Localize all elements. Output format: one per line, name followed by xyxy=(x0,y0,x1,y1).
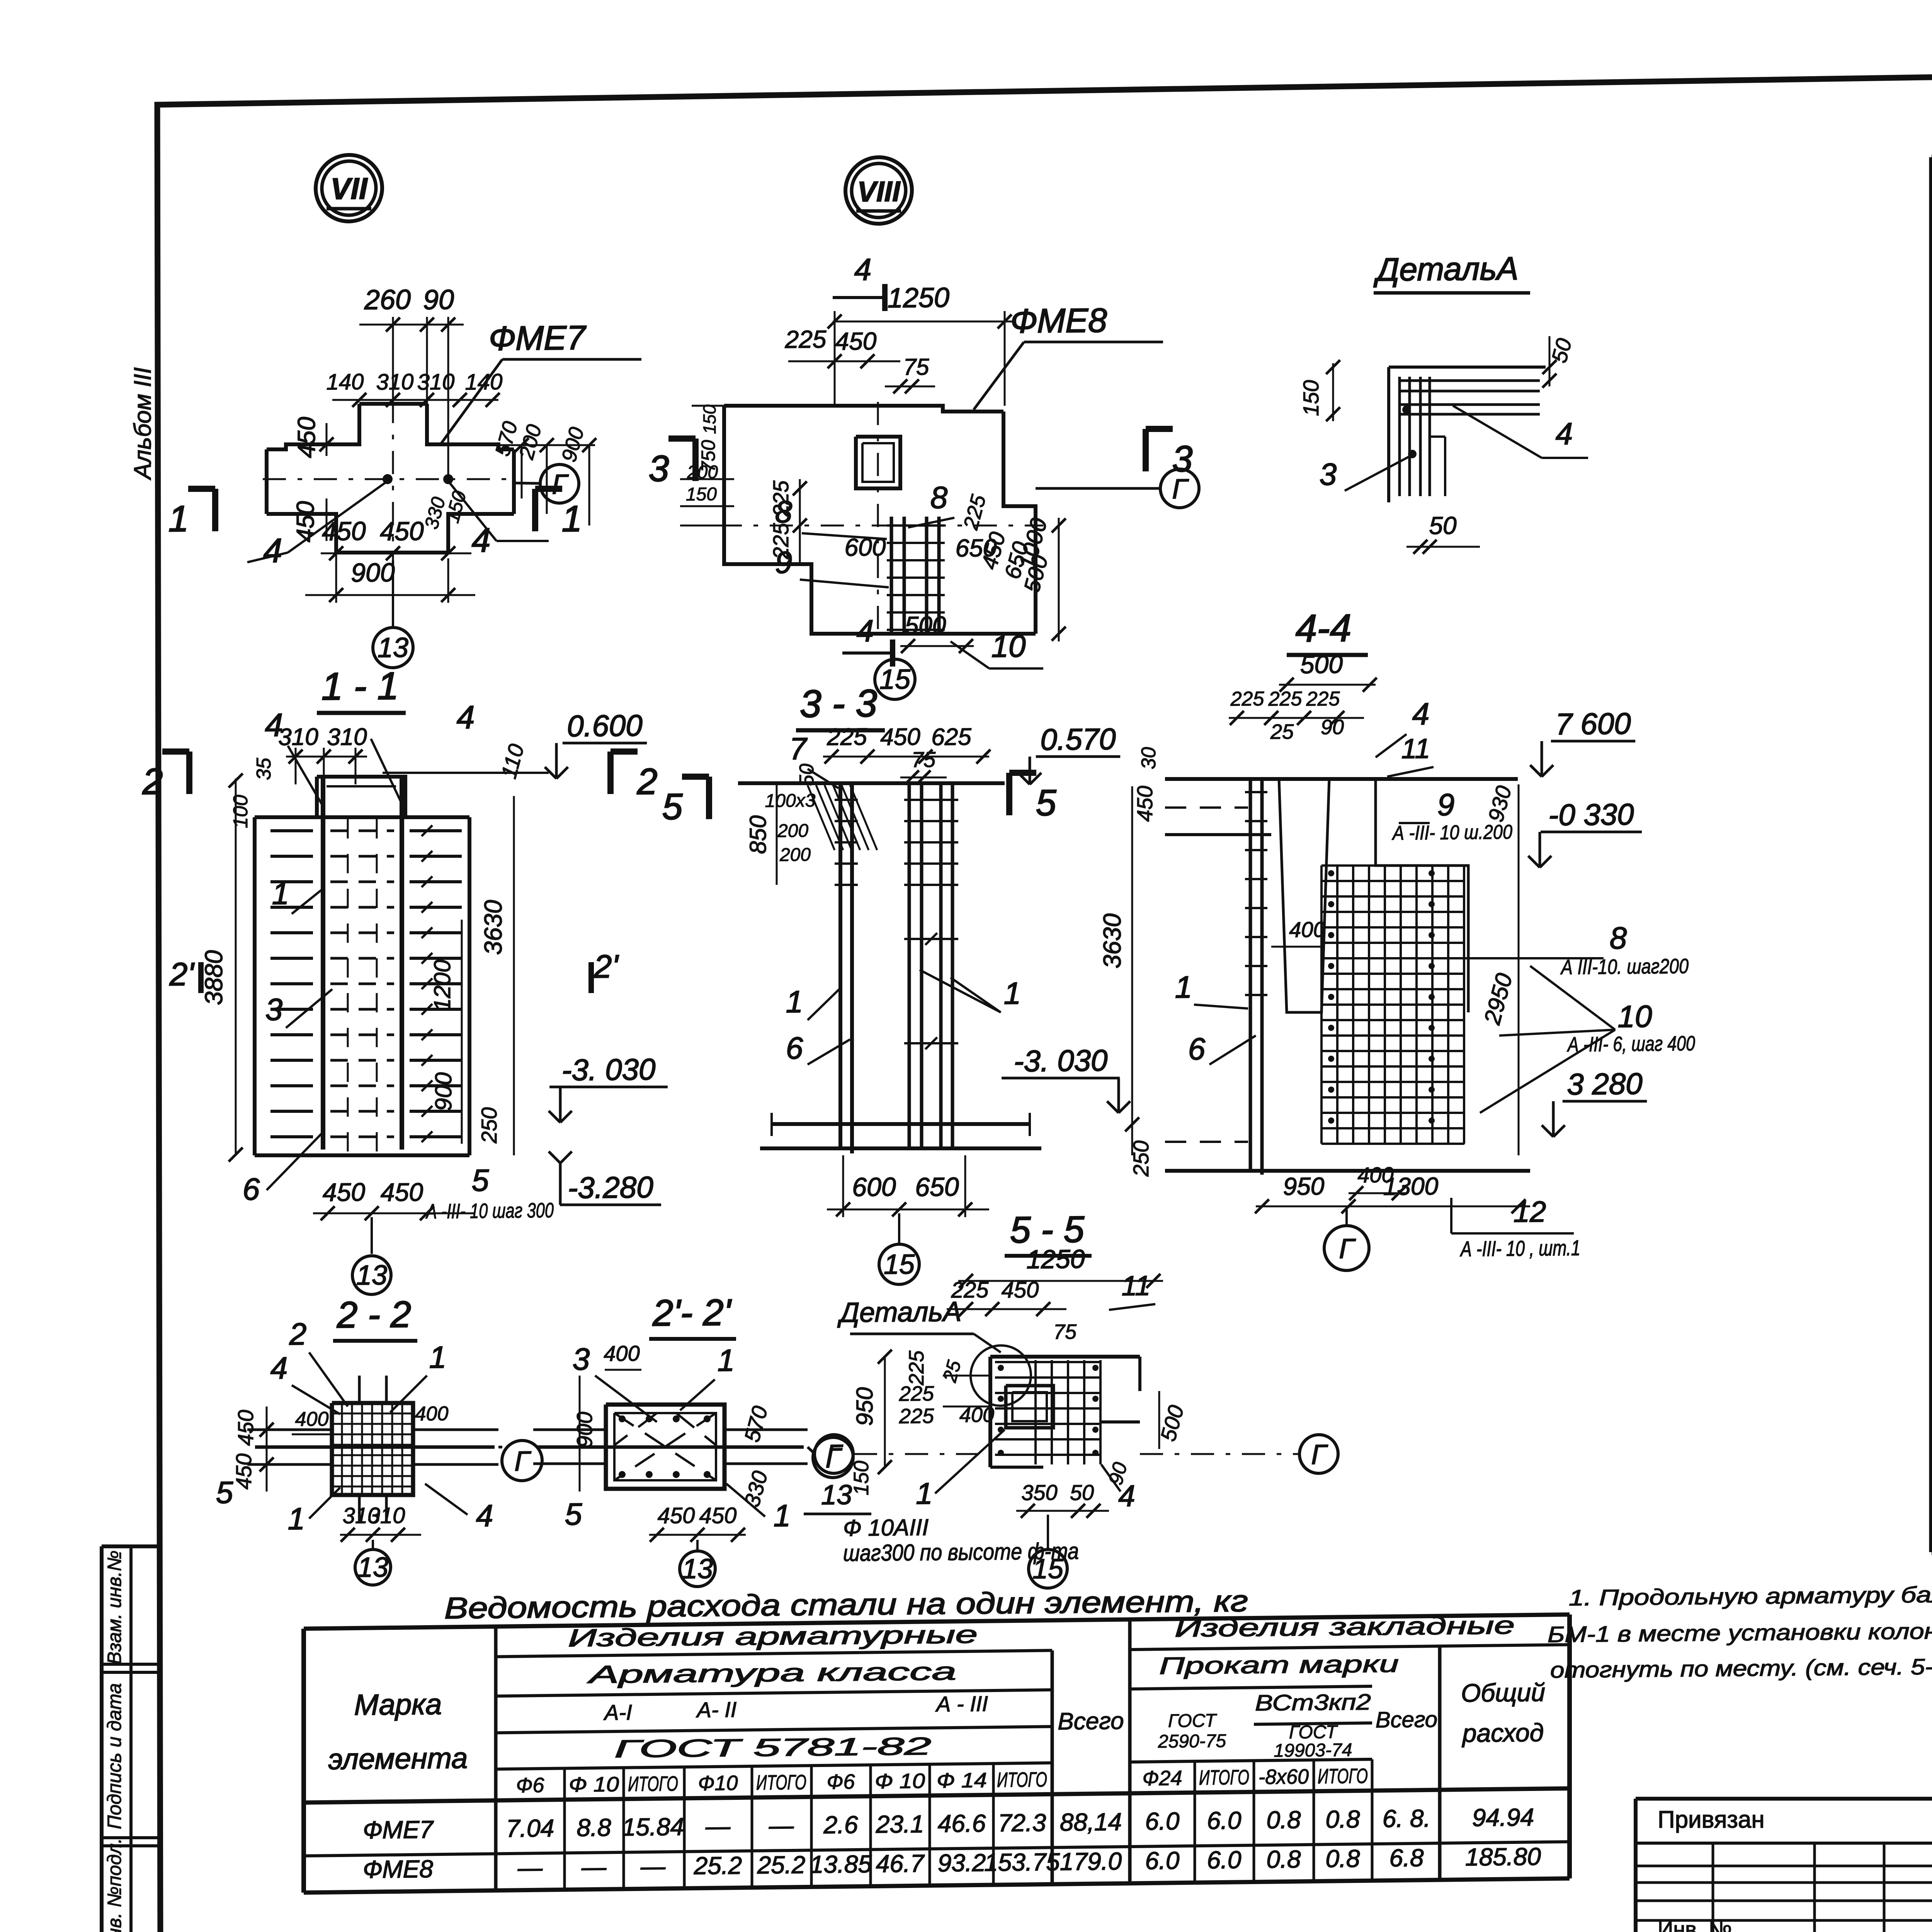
svg-text:1: 1 xyxy=(718,1343,735,1378)
svg-text:Г: Г xyxy=(552,469,569,500)
svg-text:Ф 10: Ф 10 xyxy=(875,1769,925,1793)
svg-text:Ф 10: Ф 10 xyxy=(569,1773,619,1796)
svg-text:450: 450 xyxy=(835,327,877,355)
node VIII section mark 3 marks xyxy=(692,439,699,481)
section 5-5 axes Г xyxy=(815,1435,853,1474)
svg-text:450: 450 xyxy=(699,1503,737,1529)
svg-text:Арматура класса: Арматура класса xyxy=(587,1657,956,1689)
svg-text:ФМЕ8: ФМЕ8 xyxy=(363,1855,433,1883)
svg-text:2 - 2: 2 - 2 xyxy=(337,1294,411,1336)
svg-text:260: 260 xyxy=(364,284,411,315)
node VIII section mark 4 top xyxy=(882,284,888,311)
svg-text:ДетальА: ДетальА xyxy=(837,1296,962,1328)
svg-text:500: 500 xyxy=(1300,650,1343,679)
svg-text:8: 8 xyxy=(1610,921,1627,955)
svg-text:11: 11 xyxy=(1122,1270,1151,1302)
section 5-5 dots xyxy=(998,1365,1004,1371)
svg-text:179.0: 179.0 xyxy=(1060,1847,1122,1875)
svg-text:6: 6 xyxy=(243,1172,260,1206)
svg-text:225: 225 xyxy=(1230,688,1265,711)
svg-text:-8х60: -8х60 xyxy=(1259,1765,1309,1789)
svg-text:150: 150 xyxy=(686,484,717,505)
svg-text:7.04: 7.04 xyxy=(506,1814,554,1842)
svg-text:Ф6: Ф6 xyxy=(827,1770,855,1794)
svg-text:Инв. №подл.: Инв. №подл. xyxy=(104,1838,125,1932)
svg-text:ИТОГО: ИТОГО xyxy=(1199,1766,1249,1789)
svg-text:6: 6 xyxy=(786,1031,803,1065)
svg-text:Подпись и дата: Подпись и дата xyxy=(104,1683,125,1829)
section 4-4 column trapezoid xyxy=(1279,779,1329,1013)
svg-text:225: 225 xyxy=(899,1405,934,1428)
svg-text:0.8: 0.8 xyxy=(1267,1806,1301,1834)
svg-text:310: 310 xyxy=(417,369,455,395)
section 2'-2' dots xyxy=(619,1415,626,1422)
svg-text:А -III- 10 ш.200: А -III- 10 ш.200 xyxy=(1391,821,1512,845)
svg-text:-3. 030: -3. 030 xyxy=(1014,1043,1108,1078)
svg-text:900: 900 xyxy=(572,1412,597,1448)
section 1-1 main bars xyxy=(321,777,325,1150)
svg-text:1: 1 xyxy=(1004,976,1021,1010)
svg-text:600: 600 xyxy=(852,1172,896,1202)
svg-text:8: 8 xyxy=(775,495,793,529)
svg-text:1250: 1250 xyxy=(1026,1244,1085,1274)
svg-text:450: 450 xyxy=(658,1503,695,1529)
svg-text:0.8: 0.8 xyxy=(1326,1805,1360,1833)
svg-text:100: 100 xyxy=(230,794,252,828)
svg-text:25: 25 xyxy=(1270,720,1294,744)
section 1-1 stirrups xyxy=(270,830,313,831)
svg-text:153.75: 153.75 xyxy=(984,1848,1060,1876)
svg-text:—: — xyxy=(517,1854,543,1882)
svg-text:2: 2 xyxy=(142,761,163,802)
svg-text:3: 3 xyxy=(649,448,669,489)
svg-text:950: 950 xyxy=(852,1387,878,1426)
section 4-4 top slab xyxy=(1165,776,1518,782)
svg-text:650: 650 xyxy=(956,534,997,562)
svg-text:3 - 3: 3 - 3 xyxy=(800,682,877,726)
svg-text:850: 850 xyxy=(745,815,771,854)
svg-text:46.7: 46.7 xyxy=(876,1849,925,1878)
svg-text:2': 2' xyxy=(594,948,619,985)
svg-text:Ф6: Ф6 xyxy=(516,1774,545,1797)
section 2-2 axis Г xyxy=(502,1440,542,1481)
svg-text:72.3: 72.3 xyxy=(998,1809,1046,1837)
svg-text:450: 450 xyxy=(323,1177,365,1206)
svg-text:6.0: 6.0 xyxy=(1207,1846,1242,1874)
svg-text:13: 13 xyxy=(821,1480,852,1511)
svg-text:7 600: 7 600 xyxy=(1555,706,1631,741)
svg-text:1: 1 xyxy=(1175,970,1192,1004)
svg-text:ГОСТ 5781-82: ГОСТ 5781-82 xyxy=(614,1732,931,1763)
svg-text:5: 5 xyxy=(662,786,683,827)
node VII centerlines xyxy=(392,400,394,560)
svg-text:А -III- 10 шаг 300: А -III- 10 шаг 300 xyxy=(425,1199,554,1223)
section 4-4 axis Г bottom xyxy=(1345,1209,1348,1225)
section 2-2 bubble 13 xyxy=(372,1540,374,1550)
svg-text:5: 5 xyxy=(216,1475,233,1510)
svg-text:450: 450 xyxy=(1002,1277,1039,1303)
svg-text:450: 450 xyxy=(231,1453,256,1490)
svg-text:VII: VII xyxy=(330,172,368,206)
svg-text:Марка: Марка xyxy=(354,1688,442,1721)
svg-text:250: 250 xyxy=(477,1107,501,1144)
svg-text:185.80: 185.80 xyxy=(1465,1842,1541,1871)
svg-text:А -III- 10 , шт.1: А -III- 10 , шт.1 xyxy=(1460,1236,1580,1261)
svg-text:1: 1 xyxy=(562,498,582,539)
svg-text:75: 75 xyxy=(1053,1320,1077,1344)
node VIII inner square xyxy=(856,436,900,489)
svg-text:Ф 10АIII: Ф 10АIII xyxy=(843,1514,929,1541)
svg-text:Г: Г xyxy=(1311,1439,1328,1470)
svg-text:-3.280: -3.280 xyxy=(568,1170,653,1205)
svg-text:90: 90 xyxy=(423,284,454,316)
svg-text:3880: 3880 xyxy=(200,950,228,1005)
svg-text:400: 400 xyxy=(604,1341,639,1366)
left margin stamp boxes xyxy=(102,1544,160,1548)
svg-text:650: 650 xyxy=(915,1172,959,1202)
svg-text:250: 250 xyxy=(1129,1140,1153,1177)
spec table grid xyxy=(1932,148,1932,157)
svg-text:310: 310 xyxy=(368,1503,405,1529)
svg-text:Г: Г xyxy=(826,1439,843,1470)
svg-text:140: 140 xyxy=(327,369,364,395)
svg-text:Всего: Всего xyxy=(1058,1708,1124,1735)
svg-text:4: 4 xyxy=(1412,697,1429,731)
svg-text:6. 8.: 6. 8. xyxy=(1383,1804,1431,1832)
svg-text:93.2: 93.2 xyxy=(938,1849,986,1877)
svg-text:9: 9 xyxy=(1437,787,1454,822)
svg-text:ВСт3кп2: ВСт3кп2 xyxy=(1255,1689,1371,1716)
section 5-5 plan xyxy=(990,1355,1140,1358)
svg-text:4: 4 xyxy=(472,521,491,559)
svg-text:ИТОГО: ИТОГО xyxy=(997,1768,1047,1792)
svg-text:ФМЕ7: ФМЕ7 xyxy=(363,1815,434,1844)
svg-text:ФМЕ7: ФМЕ7 xyxy=(489,318,587,357)
svg-text:—: — xyxy=(769,1811,794,1840)
node VIII mark 4 bottom xyxy=(890,639,895,667)
svg-text:30: 30 xyxy=(1138,747,1160,769)
svg-text:7: 7 xyxy=(789,731,808,766)
svg-text:-3. 030: -3. 030 xyxy=(562,1052,656,1087)
svg-text:950: 950 xyxy=(1283,1172,1325,1201)
svg-text:5: 5 xyxy=(565,1497,582,1531)
section 2'-2' bubble 13 xyxy=(696,1540,699,1551)
svg-text:15: 15 xyxy=(884,1249,915,1280)
svg-text:3: 3 xyxy=(265,992,282,1027)
svg-text:200: 200 xyxy=(779,845,811,866)
svg-text:225: 225 xyxy=(785,325,827,354)
section 3-3 right column bars xyxy=(908,783,911,1148)
node VIII position bubble 15 xyxy=(894,656,896,658)
svg-text:6.0: 6.0 xyxy=(1145,1847,1180,1875)
svg-text:6: 6 xyxy=(1188,1032,1206,1066)
detail A bars xyxy=(1389,366,1546,368)
svg-text:25.2: 25.2 xyxy=(757,1851,806,1879)
svg-text:450: 450 xyxy=(233,1410,258,1446)
section 3-3 bottom slab xyxy=(772,1122,1030,1126)
svg-text:1200: 1200 xyxy=(429,959,455,1011)
node VII section marks 1-1 xyxy=(212,489,218,531)
section 3-3 left column bars xyxy=(838,783,842,1148)
svg-text:4: 4 xyxy=(854,252,871,287)
svg-text:310: 310 xyxy=(376,369,414,395)
svg-text:75: 75 xyxy=(903,354,929,380)
section 1-1 marks 2 xyxy=(186,752,192,794)
svg-text:450: 450 xyxy=(293,417,320,458)
svg-text:625: 625 xyxy=(931,724,971,751)
svg-text:225: 225 xyxy=(827,723,867,750)
svg-text:—: — xyxy=(581,1853,607,1881)
node VII position bubble 13 xyxy=(392,560,394,628)
svg-text:-0 330: -0 330 xyxy=(1548,797,1634,832)
svg-text:2.6: 2.6 xyxy=(823,1811,858,1839)
svg-text:Альбом III: Альбом III xyxy=(129,367,156,481)
section 4-4 left wall bars xyxy=(1249,779,1252,1171)
svg-text:8.8: 8.8 xyxy=(577,1813,611,1842)
section 2'-2' diagonals xyxy=(614,1412,716,1481)
svg-text:—: — xyxy=(640,1852,666,1881)
svg-text:600: 600 xyxy=(845,533,886,561)
svg-text:350: 350 xyxy=(1021,1480,1057,1505)
svg-text:5: 5 xyxy=(472,1163,489,1197)
svg-text:15.84: 15.84 xyxy=(622,1813,684,1841)
svg-text:3 280: 3 280 xyxy=(1567,1066,1642,1101)
section 2'-2' cross arms xyxy=(533,1429,606,1430)
svg-text:4: 4 xyxy=(264,531,282,570)
svg-text:ДетальА: ДетальА xyxy=(1373,250,1518,287)
svg-text:150: 150 xyxy=(850,1461,873,1496)
svg-text:225: 225 xyxy=(905,1350,928,1386)
svg-text:4: 4 xyxy=(476,1498,493,1533)
svg-text:450: 450 xyxy=(880,724,920,751)
section 5-5 bubble 15 xyxy=(1047,1515,1049,1549)
svg-text:35: 35 xyxy=(253,757,275,780)
svg-text:6.0: 6.0 xyxy=(1145,1807,1180,1835)
svg-text:225: 225 xyxy=(1306,688,1340,711)
svg-text:Общий: Общий xyxy=(1461,1678,1545,1707)
svg-text:2: 2 xyxy=(637,761,658,802)
svg-text:Ф24: Ф24 xyxy=(1143,1767,1182,1790)
svg-text:ГОСТ: ГОСТ xyxy=(1289,1722,1338,1743)
svg-text:Ф10: Ф10 xyxy=(698,1772,738,1795)
svg-text:50: 50 xyxy=(1429,512,1457,540)
svg-text:2': 2' xyxy=(169,956,195,993)
svg-text:46.6: 46.6 xyxy=(938,1809,986,1837)
svg-text:Прокат марки: Прокат марки xyxy=(1159,1651,1399,1680)
section 3-3 hatch xyxy=(808,785,835,850)
svg-text:ИТОГО: ИТОГО xyxy=(756,1771,806,1794)
svg-text:—: — xyxy=(705,1812,731,1840)
svg-text:50: 50 xyxy=(1070,1480,1094,1505)
svg-text:Изделия закладные: Изделия закладные xyxy=(1175,1611,1515,1642)
svg-text:1: 1 xyxy=(168,498,189,539)
svg-text:900: 900 xyxy=(351,558,395,587)
section 5-5 detail circle xyxy=(971,1345,1031,1406)
svg-text:11: 11 xyxy=(1401,733,1430,765)
svg-text:VIII: VIII xyxy=(857,175,900,208)
svg-text:2590-75: 2590-75 xyxy=(1158,1731,1226,1752)
node VII axis circle Г xyxy=(540,464,579,503)
svg-text:8: 8 xyxy=(930,480,948,515)
svg-text:1: 1 xyxy=(774,1498,791,1533)
svg-text:13: 13 xyxy=(357,1552,388,1583)
svg-text:4: 4 xyxy=(1556,417,1573,451)
svg-text:900: 900 xyxy=(430,1072,456,1111)
section 3-3 bubble 15 xyxy=(898,1213,900,1243)
svg-text:расход: расход xyxy=(1462,1718,1544,1747)
svg-text:0.570: 0.570 xyxy=(1040,722,1116,757)
section 1-1 leaders 4 xyxy=(288,745,324,808)
section 3-3 marks 5 xyxy=(706,777,712,819)
svg-text:400: 400 xyxy=(1289,917,1325,942)
svg-text:5: 5 xyxy=(1036,782,1057,823)
section 2-2 square grid xyxy=(332,1402,413,1496)
svg-text:400: 400 xyxy=(295,1408,329,1431)
svg-text:0.600: 0.600 xyxy=(567,708,642,743)
svg-text:БМ-1 в месте установки коло: БМ-1 в месте установки колонны xyxy=(1548,1618,1932,1647)
svg-text:4: 4 xyxy=(270,1351,287,1385)
section 5-5 bar grid xyxy=(995,1361,1100,1363)
svg-text:15: 15 xyxy=(1032,1553,1064,1585)
svg-text:А -III- 6, шаг 400: А -III- 6, шаг 400 xyxy=(1567,1032,1695,1056)
svg-text:1. Продольную арматуру балки: 1. Продольную арматуру балки xyxy=(1569,1582,1932,1611)
section 2-2 cross arms xyxy=(247,1429,332,1430)
svg-text:0.8: 0.8 xyxy=(1267,1845,1301,1873)
section 2'-2' axis Г xyxy=(813,1437,853,1478)
svg-text:3: 3 xyxy=(1320,457,1337,492)
svg-text:6.0: 6.0 xyxy=(1207,1806,1242,1835)
svg-text:ИТОГО: ИТОГО xyxy=(1318,1764,1368,1788)
svg-text:элемента: элемента xyxy=(328,1742,468,1776)
section 1-1 body outline xyxy=(253,817,257,1155)
svg-text:225: 225 xyxy=(899,1382,934,1406)
svg-text:ГОСТ: ГОСТ xyxy=(1168,1711,1218,1731)
svg-text:1 - 1: 1 - 1 xyxy=(321,664,399,708)
svg-text:10: 10 xyxy=(1618,999,1652,1034)
svg-text:225: 225 xyxy=(1268,688,1303,711)
svg-text:140: 140 xyxy=(465,369,503,395)
svg-text:200: 200 xyxy=(777,821,808,842)
svg-text:1: 1 xyxy=(288,1502,305,1536)
svg-text:150: 150 xyxy=(699,404,719,434)
steel table grid xyxy=(304,1614,1570,1629)
svg-text:А - III: А - III xyxy=(935,1691,988,1716)
section 4-4 mesh dots xyxy=(1328,870,1334,876)
svg-text:90: 90 xyxy=(1321,716,1344,739)
svg-text:23.1: 23.1 xyxy=(876,1810,924,1838)
svg-text:4-4: 4-4 xyxy=(1296,606,1352,650)
svg-text:2'- 2': 2'- 2' xyxy=(652,1292,732,1334)
svg-text:Ф 14: Ф 14 xyxy=(937,1769,987,1792)
section 1-1 bubble 13 xyxy=(371,1217,373,1254)
svg-text:13: 13 xyxy=(356,1260,387,1291)
svg-text:310: 310 xyxy=(327,724,367,751)
svg-text:1: 1 xyxy=(786,985,803,1019)
svg-text:ФМЕ8: ФМЕ8 xyxy=(1010,301,1107,340)
svg-text:25.2: 25.2 xyxy=(694,1851,742,1879)
section 2'-2' square xyxy=(606,1403,724,1490)
node VIII axis Г xyxy=(1160,469,1199,508)
svg-text:1: 1 xyxy=(272,876,289,911)
svg-text:450: 450 xyxy=(322,516,366,546)
svg-text:13.85: 13.85 xyxy=(810,1850,872,1878)
svg-text:400: 400 xyxy=(415,1403,449,1425)
svg-text:75: 75 xyxy=(912,747,936,772)
svg-text:1: 1 xyxy=(916,1476,932,1510)
svg-text:9: 9 xyxy=(775,545,792,580)
svg-text:4: 4 xyxy=(457,699,475,735)
section 3-3 top line xyxy=(738,781,1005,786)
svg-text:13: 13 xyxy=(682,1553,713,1585)
svg-text:450: 450 xyxy=(381,1178,423,1207)
svg-text:310: 310 xyxy=(278,724,318,751)
svg-text:3630: 3630 xyxy=(1098,913,1126,968)
node VIII column bars below xyxy=(890,517,893,634)
svg-text:3630: 3630 xyxy=(479,900,507,955)
svg-text:3: 3 xyxy=(573,1342,590,1376)
section 1-1 column stub xyxy=(317,776,405,818)
node VII plan outline xyxy=(267,404,359,449)
svg-text:ИТОГО: ИТОГО xyxy=(628,1772,678,1796)
svg-text:13: 13 xyxy=(378,632,408,663)
svg-text:4: 4 xyxy=(857,614,874,648)
svg-text:10: 10 xyxy=(992,629,1026,664)
svg-text:Изделия арматурные: Изделия арматурные xyxy=(568,1621,978,1652)
svg-text:А-I: А-I xyxy=(603,1700,632,1725)
svg-text:Г: Г xyxy=(514,1446,531,1477)
svg-text:12: 12 xyxy=(1514,1196,1546,1229)
svg-text:450: 450 xyxy=(1133,786,1157,822)
svg-text:Г: Г xyxy=(1339,1233,1356,1264)
privyazan box xyxy=(1636,1797,1932,1801)
svg-text:Всего: Всего xyxy=(1376,1707,1437,1732)
node VIII plan outline xyxy=(724,403,1003,414)
svg-text:А- II: А- II xyxy=(696,1697,737,1722)
svg-text:15: 15 xyxy=(879,664,911,695)
svg-text:1300: 1300 xyxy=(1383,1172,1439,1200)
node VIII centerlines xyxy=(877,402,879,638)
svg-text:88,14: 88,14 xyxy=(1060,1808,1122,1836)
svg-text:100х3: 100х3 xyxy=(765,790,816,811)
svg-text:отогнуть по месту. (см. сеч.: отогнуть по месту. (см. сеч. 5-5) xyxy=(1550,1654,1932,1683)
svg-text:450: 450 xyxy=(380,517,424,546)
svg-text:19903-74: 19903-74 xyxy=(1274,1740,1352,1761)
svg-text:94.94: 94.94 xyxy=(1472,1803,1534,1832)
svg-text:Инв. №: Инв. № xyxy=(1658,1917,1732,1932)
svg-text:Формат: Формат xyxy=(1929,164,1932,238)
svg-text:Взам. инв.№: Взам. инв.№ xyxy=(104,1550,125,1664)
section 4-4 mesh grid xyxy=(1320,866,1323,1144)
svg-text:150: 150 xyxy=(1299,380,1323,416)
node VII bubble xyxy=(316,155,382,222)
section 5-5 inner square xyxy=(1006,1385,1053,1428)
svg-text:0.8: 0.8 xyxy=(1326,1845,1360,1873)
svg-text:1: 1 xyxy=(429,1340,446,1374)
svg-text:450: 450 xyxy=(291,501,319,543)
section 4-4 bottom xyxy=(1165,1167,1530,1174)
svg-text:2: 2 xyxy=(289,1317,306,1351)
svg-text:6.8: 6.8 xyxy=(1389,1844,1424,1872)
svg-text:Г: Г xyxy=(1172,474,1189,505)
section 4-4 step outline xyxy=(1376,778,1468,1013)
node VIII bubble xyxy=(845,157,912,224)
svg-text:Привязан: Привязан xyxy=(1658,1806,1765,1833)
svg-text:500: 500 xyxy=(905,611,946,639)
svg-text:1250: 1250 xyxy=(888,282,949,313)
